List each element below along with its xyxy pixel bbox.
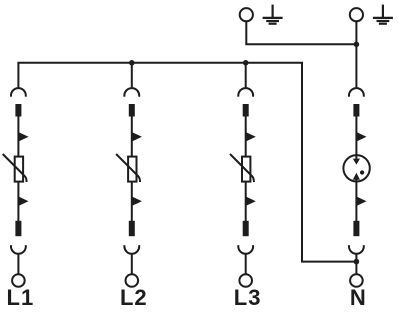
svg-text:L2: L2 [120,285,148,310]
svg-text:L1: L1 [7,285,35,310]
svg-text:L3: L3 [234,285,262,310]
svg-text:N: N [350,285,366,310]
